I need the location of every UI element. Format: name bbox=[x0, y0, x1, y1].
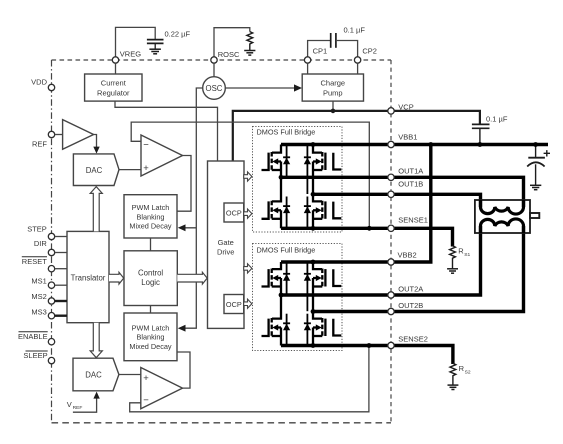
svg-text:OUT2A: OUT2A bbox=[398, 285, 423, 294]
op-amp REF buffer bbox=[63, 120, 94, 150]
ground (RS2) bbox=[448, 385, 459, 389]
svg-text:OCP: OCP bbox=[226, 209, 242, 218]
pin SLEEP bbox=[48, 357, 54, 363]
diode D7 (body, Q7) bbox=[283, 314, 290, 346]
block Current Regulator bbox=[85, 74, 142, 101]
svg-text:ROSC: ROSC bbox=[218, 50, 240, 59]
svg-text:+: + bbox=[143, 373, 149, 384]
motor shaft bbox=[530, 213, 539, 218]
block Control Logic bbox=[124, 251, 177, 306]
svg-text:OSC: OSC bbox=[206, 84, 223, 93]
transistor Q1 (bridge1 high-side left) bbox=[262, 145, 282, 178]
svg-text:MS3: MS3 bbox=[31, 308, 46, 317]
junction VBB1 / bulk cap bbox=[533, 142, 538, 147]
svg-text:Pump: Pump bbox=[323, 89, 343, 98]
junction SENSE1/Q4 bbox=[311, 226, 316, 231]
wire CP2 to charge pump bbox=[357, 63, 359, 74]
pin SENSE2 bbox=[388, 342, 394, 348]
svg-text:0.1 µF: 0.1 µF bbox=[486, 115, 508, 124]
pin REF bbox=[48, 131, 54, 137]
svg-text:Mixed Decay: Mixed Decay bbox=[129, 221, 172, 230]
wire DAC1 to comparator1 bbox=[119, 169, 141, 171]
arrow gate drive to bridge 2 (lower) bbox=[244, 264, 252, 273]
pin MS3 bbox=[48, 313, 54, 319]
diode D6 (body, Q6) bbox=[304, 264, 311, 312]
block PWM Latch 2 bbox=[124, 313, 177, 361]
DMOS full bridge 1 box (dotted) bbox=[253, 127, 343, 233]
label RS1 bbox=[458, 247, 470, 259]
arrowhead into PWM latch 2 bbox=[178, 325, 186, 332]
diode D4 (body, Q4) bbox=[304, 197, 311, 229]
net OUT1B rail bbox=[313, 194, 481, 207]
block OCP 2 bbox=[224, 295, 244, 314]
wire OSC to Charge Pump (arrow) bbox=[225, 84, 302, 91]
resistor RS2 bbox=[450, 363, 456, 385]
pin OUT1A bbox=[388, 174, 394, 180]
svg-text:Logic: Logic bbox=[141, 278, 160, 287]
pin MS2 bbox=[48, 298, 54, 304]
svg-text:CP1: CP1 bbox=[313, 47, 328, 56]
block Translator bbox=[67, 231, 109, 322]
motor body bbox=[475, 200, 530, 233]
junction charge pump / VCP bbox=[331, 109, 336, 114]
capacitor C bulk (electrolytic, +) bbox=[527, 146, 545, 185]
svg-text:Drive: Drive bbox=[217, 248, 235, 257]
wire Charge Pump to VCP line bbox=[332, 101, 334, 111]
junction OUT1A/Q1 bbox=[279, 175, 284, 180]
wire ROSC to OSC bbox=[213, 63, 215, 77]
svg-text:VCP: VCP bbox=[398, 102, 413, 111]
diode D1 (body, Q1) bbox=[283, 146, 290, 177]
wire comparator1 minus to SENSE1 (feedback) bbox=[131, 122, 369, 228]
wire VCP external bbox=[394, 111, 480, 124]
svg-text:OUT1B: OUT1B bbox=[398, 179, 423, 188]
junction OUT2A/Q5 bbox=[279, 293, 284, 298]
transistor Q5 (bridge2 high-side left) bbox=[262, 262, 282, 295]
svg-text:Current: Current bbox=[101, 79, 127, 88]
ground (VREG cap) bbox=[149, 49, 161, 54]
svg-text:S2: S2 bbox=[465, 370, 471, 376]
svg-text:DMOS Full Bridge: DMOS Full Bridge bbox=[257, 246, 316, 255]
ground (ROSC) bbox=[244, 51, 255, 56]
pin OUT2A bbox=[388, 292, 394, 298]
junction SENSE1/feedback bbox=[367, 226, 372, 231]
block Charge Pump bbox=[302, 74, 363, 101]
svg-text:CP2: CP2 bbox=[362, 47, 377, 56]
junction SENSE2/Q8 bbox=[311, 343, 316, 348]
wire MS3 bbox=[55, 315, 67, 317]
svg-text:OUT2B: OUT2B bbox=[398, 301, 423, 310]
wire comparator1 output to PWM latch 1 bbox=[177, 156, 191, 212]
wire CP1 to charge pump bbox=[307, 63, 309, 74]
junction VCP cap / VBB1 bbox=[478, 142, 483, 147]
junction VBB1/VBB2 tie bbox=[428, 142, 433, 147]
diode D2 (body, Q2) bbox=[304, 146, 311, 194]
plus sign (bulk cap) bbox=[544, 150, 550, 156]
capacitor 0.22uF bbox=[147, 40, 164, 49]
chip border right (dashed) bbox=[390, 60, 392, 423]
svg-text:STEP: STEP bbox=[27, 225, 47, 234]
svg-text:Blanking: Blanking bbox=[137, 333, 165, 342]
wire MS2 bbox=[55, 300, 67, 302]
pin VCP bbox=[388, 108, 394, 114]
svg-text:−: − bbox=[143, 395, 149, 406]
svg-text:SENSE2: SENSE2 bbox=[398, 335, 428, 344]
wire cap to CP2 bbox=[336, 41, 358, 58]
svg-text:PWM Latch: PWM Latch bbox=[132, 324, 170, 333]
svg-text:Translator: Translator bbox=[71, 273, 106, 282]
svg-text:RESET: RESET bbox=[22, 257, 47, 266]
svg-text:0.1 µF: 0.1 µF bbox=[344, 25, 366, 34]
net SENSE2 rail bbox=[281, 346, 453, 365]
label VREF bbox=[67, 400, 83, 411]
capacitor 0.1uF (charge pump) bbox=[331, 33, 336, 48]
wire VREG to Current Regulator bbox=[115, 63, 117, 74]
svg-text:DAC: DAC bbox=[86, 166, 103, 175]
wire DIR bbox=[55, 252, 67, 254]
arrow OCP1 to bridge 1 bbox=[244, 209, 252, 218]
DAC U1 (upper) bbox=[73, 154, 119, 186]
resistor ROSC bbox=[247, 32, 253, 51]
label SLEEP (with overline) bbox=[23, 351, 47, 360]
wire comparator2 output to PWM latch 2 bbox=[177, 352, 190, 388]
block PWM Latch 1 bbox=[124, 195, 177, 238]
svg-text:Charge: Charge bbox=[320, 79, 345, 88]
pin VBB2 bbox=[388, 259, 394, 265]
wire Current Regulator to Gate Drive bbox=[115, 101, 218, 161]
pin OUT1B bbox=[388, 191, 394, 197]
comparator 2 bbox=[141, 368, 183, 409]
svg-text:DMOS Full Bridge: DMOS Full Bridge bbox=[257, 128, 316, 137]
svg-text:−: − bbox=[143, 140, 149, 151]
svg-text:MS2: MS2 bbox=[31, 292, 46, 301]
junction VBB2/Q6 bbox=[311, 260, 316, 265]
pin CP1 bbox=[304, 57, 310, 63]
comparator 1 bbox=[141, 135, 183, 176]
svg-text:PWM Latch: PWM Latch bbox=[132, 203, 170, 212]
svg-text:S1: S1 bbox=[464, 252, 470, 258]
svg-text:V: V bbox=[67, 400, 72, 409]
pin VREG bbox=[112, 57, 118, 63]
pin CP2 bbox=[354, 57, 360, 63]
transistor Q4 (bridge1 low-side right, mirrored) bbox=[313, 194, 341, 228]
label ENABLE (with overline) bbox=[18, 332, 48, 341]
net OUT2B rail bbox=[313, 226, 524, 312]
capacitor 0.1uF (VCP) bbox=[472, 124, 490, 144]
diode D5 (body, Q5) bbox=[283, 264, 290, 295]
chip border bottom (dashed) bbox=[52, 422, 392, 424]
svg-text:REF: REF bbox=[32, 140, 47, 149]
label RESET (with overline) bbox=[22, 257, 47, 266]
wire VREG to 0.22uF cap bbox=[116, 27, 156, 57]
junction OUT1B/Q2 bbox=[311, 192, 316, 197]
DAC U2 (lower) bbox=[73, 358, 119, 391]
net VBB2 rail bbox=[281, 145, 431, 263]
svg-text:Gate: Gate bbox=[218, 238, 234, 247]
svg-text:DIR: DIR bbox=[34, 239, 48, 248]
svg-text:SLEEP: SLEEP bbox=[23, 351, 47, 360]
svg-text:SENSE1: SENSE1 bbox=[398, 215, 428, 224]
svg-text:REF: REF bbox=[73, 405, 83, 411]
svg-text:OUT1A: OUT1A bbox=[398, 166, 423, 175]
wire CP1 to cap bbox=[308, 41, 331, 58]
svg-text:+: + bbox=[143, 163, 149, 174]
bus arrow Translator to DAC2 bbox=[90, 323, 102, 358]
oscillator OSC bbox=[203, 77, 226, 100]
pin MS1 bbox=[48, 282, 54, 288]
wire comparator2 minus to SENSE2 (feedback) bbox=[130, 346, 369, 412]
pin SENSE1 bbox=[388, 225, 394, 231]
bus arrow Translator to DAC1 bbox=[90, 187, 102, 232]
arrowhead into PWM latch 1 bbox=[178, 224, 186, 231]
pin VDD bbox=[48, 84, 54, 90]
wire DAC2 to comparator2 bbox=[119, 374, 141, 376]
transistor Q3 (bridge1 low-side left) bbox=[262, 177, 282, 228]
ground (RS1) bbox=[447, 269, 458, 273]
wire Control Logic to PWM2 bbox=[150, 306, 152, 314]
net OUT1A rail bbox=[281, 177, 524, 207]
svg-text:OCP: OCP bbox=[226, 300, 242, 309]
pin ROSC bbox=[211, 57, 217, 63]
block OCP 1 bbox=[224, 203, 244, 222]
svg-text:VBB2: VBB2 bbox=[398, 250, 417, 259]
svg-text:Mixed Decay: Mixed Decay bbox=[129, 342, 172, 351]
diode D3 (body, Q3) bbox=[283, 197, 290, 229]
diode D8 (body, Q8) bbox=[304, 314, 311, 346]
wire VREF to DAC2 (arrow) bbox=[73, 392, 100, 413]
chip border left (dash-dot) bbox=[51, 60, 53, 423]
pin RESET bbox=[48, 266, 54, 272]
svg-text:Blanking: Blanking bbox=[137, 212, 165, 221]
transistor Q2 (bridge1 high-side right, mirrored) bbox=[313, 145, 341, 195]
pin STEP bbox=[48, 233, 54, 239]
wire OSC to PWM latches bbox=[181, 88, 203, 328]
motor winding 2 (bottom) bbox=[481, 219, 524, 233]
DMOS full bridge 2 box (dotted) bbox=[253, 244, 343, 351]
net SENSE1 rail bbox=[281, 228, 453, 246]
transistor Q6 (bridge2 high-side right, mirrored) bbox=[313, 262, 341, 312]
bus arrow Control Logic to Gate Drive bbox=[177, 272, 207, 284]
net VBB1 rail bbox=[281, 143, 548, 146]
svg-text:VDD: VDD bbox=[31, 77, 47, 86]
bus arrow Translator to Control Logic bbox=[109, 272, 124, 284]
svg-text:VBB1: VBB1 bbox=[398, 133, 417, 142]
transistor Q7 (bridge2 low-side left) bbox=[262, 295, 282, 346]
arrow gate drive to bridge 1 (upper) bbox=[244, 172, 252, 181]
svg-text:0.22 µF: 0.22 µF bbox=[165, 30, 191, 39]
pin OUT2B bbox=[388, 308, 394, 314]
net OUT2A rail bbox=[281, 226, 481, 295]
junction VBB1/Q2 bbox=[311, 142, 316, 147]
transistor Q8 (bridge2 low-side right, mirrored) bbox=[313, 312, 341, 346]
svg-text:MS1: MS1 bbox=[31, 277, 46, 286]
wire amp to DAC1 (arrow) bbox=[93, 135, 99, 154]
ground (bulk cap) bbox=[530, 185, 541, 189]
pin VBB1 bbox=[388, 141, 394, 147]
pin ENABLE bbox=[48, 339, 54, 345]
pin DIR bbox=[48, 249, 54, 255]
svg-text:ENABLE: ENABLE bbox=[18, 332, 48, 341]
wire VCP (internal, to gate drive) bbox=[233, 111, 391, 161]
block Gate Drive bbox=[208, 161, 245, 328]
junction OUT2B/Q6 bbox=[311, 309, 316, 314]
motor winding 1 (top) bbox=[481, 200, 524, 214]
junction SENSE2/feedback bbox=[367, 343, 372, 348]
wire PWM1 to Control Logic bbox=[150, 238, 152, 251]
label RS2 bbox=[459, 364, 471, 376]
svg-text:DAC: DAC bbox=[85, 371, 102, 380]
svg-text:VREG: VREG bbox=[120, 49, 141, 58]
wire ROSC to resistor bbox=[214, 28, 250, 57]
wire STEP bbox=[55, 236, 67, 238]
wire REF to amp bbox=[55, 134, 63, 136]
arrow OCP2 to bridge 2 bbox=[244, 299, 252, 308]
svg-text:Regulator: Regulator bbox=[97, 89, 130, 98]
resistor RS1 bbox=[450, 246, 456, 269]
chip border top (dashed) bbox=[52, 59, 392, 61]
wire RESET bbox=[55, 268, 67, 270]
svg-text:Control: Control bbox=[138, 269, 163, 278]
wire MS1 bbox=[55, 284, 67, 286]
